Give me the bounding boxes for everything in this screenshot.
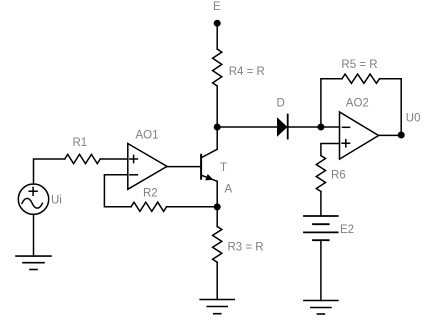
wire emitter to node A <box>216 181 218 207</box>
svg-text:U0: U0 <box>406 113 421 125</box>
svg-text:R5 = R: R5 = R <box>341 59 377 71</box>
wire AO2 noninverting input to R6 <box>321 144 340 156</box>
wire AO2 output to U0 <box>379 134 402 136</box>
svg-text:Ui: Ui <box>51 195 62 207</box>
svg-text:A: A <box>225 183 233 195</box>
svg-text:R3 = R: R3 = R <box>228 241 264 253</box>
op-amp AO1 <box>128 144 167 190</box>
resistor R5 <box>342 74 380 83</box>
svg-text:E2: E2 <box>340 224 354 236</box>
terminal E dot <box>214 20 221 27</box>
wire R6 to battery <box>320 192 322 217</box>
battery E2 <box>304 216 338 240</box>
wire E terminal to R4 <box>216 23 218 49</box>
wire R2 to node A <box>167 206 218 208</box>
wire diode cathode to node <box>288 126 321 128</box>
svg-text:E: E <box>213 1 221 13</box>
resistor R4 <box>213 49 222 86</box>
svg-text:R1: R1 <box>73 137 88 149</box>
op-amp AO2 <box>340 112 379 159</box>
wire collector node to diode anode <box>217 126 277 128</box>
svg-text:R2: R2 <box>143 187 158 199</box>
source Ui <box>18 184 48 214</box>
node U0 output <box>398 132 405 139</box>
diode D <box>277 115 288 139</box>
resistor R2 <box>131 202 167 211</box>
svg-text:D: D <box>277 98 285 110</box>
svg-text:R6: R6 <box>331 170 346 182</box>
resistor R6 <box>316 156 325 192</box>
wire R1 to AO1 noninverting input <box>100 158 128 160</box>
wire source to ground <box>33 214 35 256</box>
wire AO1 inverting input to R2 <box>104 175 131 207</box>
resistor R1 <box>65 154 101 163</box>
wire node to AO2 inverting input <box>321 126 340 128</box>
ground (battery) <box>304 301 338 315</box>
svg-text:T: T <box>220 162 227 174</box>
ground (source) <box>16 256 51 269</box>
wire source to R1 <box>34 159 65 184</box>
wire node A to R3 <box>216 207 218 227</box>
wire R4 to collector node <box>216 86 218 127</box>
node collector junction <box>214 124 221 131</box>
svg-text:AO1: AO1 <box>136 130 159 142</box>
resistor R3 <box>213 227 222 263</box>
wire R3 to ground <box>216 262 218 299</box>
node A <box>214 203 221 210</box>
svg-text:R4 = R: R4 = R <box>229 66 265 78</box>
svg-text:AO2: AO2 <box>346 98 369 110</box>
wire R5 to output node <box>380 79 402 135</box>
wire battery to ground <box>320 240 322 300</box>
wire AO1 output to transistor base <box>167 166 201 168</box>
wire collector to node <box>216 127 218 149</box>
wire feedback node up to R5 <box>321 79 342 127</box>
node diode / AO2 inverting input <box>317 124 324 131</box>
transistor T <box>201 149 217 181</box>
ground (R3) <box>200 300 234 314</box>
